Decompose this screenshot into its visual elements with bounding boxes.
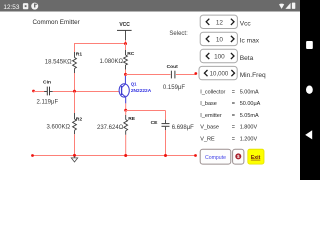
- svg-text:12: 12: [216, 19, 224, 26]
- spinner Vcc box: [200, 15, 237, 28]
- android navigation bar: [300, 0, 320, 180]
- svg-text:Cout: Cout: [167, 64, 179, 70]
- wire RE top: [125, 111, 127, 116]
- svg-text:Ic max: Ic max: [240, 38, 260, 45]
- svg-text:Exit: Exit: [251, 155, 261, 161]
- svg-text:Select:: Select:: [169, 31, 188, 37]
- transistor Q1: [119, 76, 129, 103]
- svg-text:VCC: VCC: [119, 22, 130, 28]
- svg-text:1.800V: 1.800V: [240, 125, 258, 131]
- svg-text:CE: CE: [151, 120, 159, 126]
- nav home (circle) button: [306, 86, 313, 94]
- resistor RE: [124, 115, 128, 135]
- svg-text:5.05mA: 5.05mA: [240, 113, 259, 119]
- svg-text:12:53: 12:53: [3, 4, 19, 11]
- svg-text:I_base: I_base: [200, 101, 217, 107]
- VCC lead (dark): [125, 30, 127, 40]
- svg-text:50.00μA: 50.00μA: [240, 101, 261, 107]
- svg-text:V_base: V_base: [200, 125, 219, 131]
- ground rail output terminal: [194, 154, 197, 157]
- capacitor CE: [162, 120, 170, 130]
- svg-text:Q1: Q1: [131, 82, 137, 87]
- svg-text:=: =: [232, 136, 235, 142]
- wire CE bottom to ground rail: [165, 130, 167, 155]
- svg-text:3.600KΩ: 3.600KΩ: [46, 124, 70, 130]
- resistor R1: [73, 52, 77, 73]
- wire Cout to output terminal: [176, 74, 196, 76]
- svg-text:Vcc: Vcc: [240, 21, 252, 28]
- svg-text:6.698μF: 6.698μF: [172, 125, 194, 131]
- svg-text:=: =: [232, 101, 235, 107]
- button Exit: [248, 149, 264, 164]
- svg-text:0.159μF: 0.159μF: [163, 85, 185, 91]
- junction emitter node: [124, 109, 127, 112]
- junction base node: [73, 90, 76, 93]
- svg-text:Cin: Cin: [43, 79, 51, 85]
- svg-text:=: =: [232, 90, 235, 96]
- capacitor Cout: [171, 71, 175, 79]
- wire VCC to top rail (red): [125, 40, 127, 44]
- svg-text:Min.Freq: Min.Freq: [240, 72, 266, 79]
- VCC terminal bar: [117, 29, 132, 31]
- svg-text:I_collector: I_collector: [200, 90, 225, 96]
- junction collector node: [124, 73, 127, 76]
- wire R2 top: [74, 92, 76, 114]
- svg-text:100: 100: [214, 54, 225, 61]
- input terminal node: [32, 90, 35, 93]
- svg-text:Beta: Beta: [240, 55, 254, 62]
- ground rail wire: [33, 155, 196, 157]
- wire emitter to RE node: [125, 103, 127, 110]
- svg-text:Compute: Compute: [205, 155, 226, 161]
- spinner Beta box: [200, 49, 237, 62]
- svg-text:237.624Ω: 237.624Ω: [97, 125, 124, 131]
- svg-text:RC: RC: [127, 51, 135, 57]
- resistor R2: [73, 113, 77, 134]
- svg-text:2.119μF: 2.119μF: [36, 100, 58, 106]
- svg-text:10: 10: [216, 36, 224, 43]
- wire emitter node to CE: [126, 110, 166, 112]
- output terminal node: [194, 72, 197, 75]
- svg-text:5.00mA: 5.00mA: [240, 90, 259, 96]
- svg-text:10,000: 10,000: [210, 71, 229, 78]
- ground symbol: [71, 156, 77, 162]
- status battery icon: [292, 3, 295, 9]
- junction RE / ground: [124, 154, 127, 157]
- svg-text:2N2222A: 2N2222A: [131, 88, 152, 94]
- wire R1 top: [74, 43, 76, 52]
- capacitor Cin: [44, 87, 53, 96]
- svg-text:I_emitter: I_emitter: [200, 113, 222, 119]
- junction R2 / ground: [73, 154, 76, 157]
- status notification icon 2: [31, 3, 38, 10]
- nav recents (square) button: [306, 41, 313, 49]
- svg-text:=: =: [232, 113, 235, 119]
- status signal icon: [285, 3, 290, 9]
- svg-text:V_RE: V_RE: [200, 136, 215, 142]
- wire RC top: [125, 44, 127, 51]
- status wifi icon: [279, 4, 284, 9]
- button alert: [233, 149, 244, 164]
- wire R2 bottom to ground rail: [74, 134, 76, 155]
- wire collector to Cout: [126, 74, 171, 76]
- wire top rail R1 to VCC column: [74, 43, 126, 45]
- resistor RC: [124, 50, 128, 70]
- svg-text:1.080KΩ: 1.080KΩ: [99, 59, 123, 65]
- svg-text:R1: R1: [76, 51, 83, 57]
- ground rail input terminal: [31, 154, 34, 157]
- svg-text:$: $: [237, 154, 240, 159]
- wire R1 bottom to base node: [74, 73, 76, 92]
- wire RC bottom to collector node: [125, 70, 127, 75]
- wire RE bottom to ground rail: [125, 135, 127, 156]
- svg-text:R2: R2: [76, 116, 83, 122]
- wire Cin to base: [53, 91, 120, 93]
- spinner Ic max box: [200, 32, 237, 45]
- wire input to Cin: [34, 91, 47, 93]
- status bar: [0, 0, 300, 12]
- svg-text:18.545KΩ: 18.545KΩ: [45, 60, 72, 66]
- junction VCC rail / RC: [124, 42, 127, 45]
- wire CE top: [165, 111, 167, 120]
- svg-text:RE: RE: [128, 116, 136, 122]
- svg-text:1.200V: 1.200V: [240, 136, 258, 142]
- junction CE / ground: [164, 154, 167, 157]
- status notification icon 1: [23, 3, 28, 9]
- nav back (triangle) button: [305, 130, 312, 139]
- button Compute: [200, 149, 231, 164]
- spinner Min.Freq box: [199, 66, 237, 79]
- svg-text:Common Emitter: Common Emitter: [33, 19, 80, 26]
- svg-text:=: =: [232, 125, 235, 131]
